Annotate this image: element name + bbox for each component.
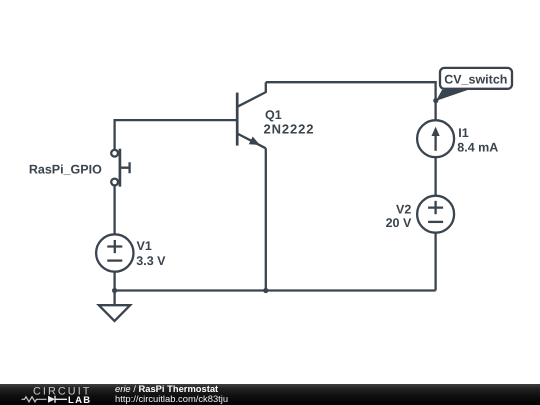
node emitter junction bbox=[263, 288, 268, 293]
transistor Q1 bbox=[237, 82, 266, 148]
flag CV_switch pointer bbox=[436, 90, 468, 101]
switch RasPi_GPIO bbox=[111, 149, 129, 187]
ground bbox=[99, 291, 130, 322]
wire emitter to bottom rail bbox=[265, 148, 267, 290]
svg-text:3.3 V: 3.3 V bbox=[136, 254, 166, 268]
svg-text:RasPi_GPIO: RasPi_GPIO bbox=[29, 162, 102, 176]
node ground junction bbox=[112, 288, 117, 293]
wire switch to V1 bbox=[113, 186, 115, 235]
svg-text:20 V: 20 V bbox=[386, 216, 412, 230]
svg-text:V2: V2 bbox=[396, 203, 411, 217]
svg-text:CV_switch: CV_switch bbox=[444, 72, 507, 86]
wire collector to I1 bbox=[266, 82, 436, 120]
wire V2 to bottom rail bbox=[434, 233, 436, 291]
footer bar bbox=[0, 384, 540, 405]
footer url line bbox=[115, 393, 228, 404]
wire I1 to V2 bbox=[434, 157, 436, 196]
voltage source V1 bbox=[96, 234, 133, 271]
svg-text:I1: I1 bbox=[458, 126, 468, 140]
svg-text:2N2222: 2N2222 bbox=[264, 121, 315, 136]
node CV_switch attach bbox=[433, 98, 438, 103]
svg-text:V1: V1 bbox=[137, 239, 152, 253]
wire base (switch to Q1 base) bbox=[115, 120, 237, 150]
bottom wire (ground rail) bbox=[115, 289, 436, 291]
logo resistor zigzag bbox=[22, 397, 47, 402]
voltage source V2 bbox=[417, 196, 454, 233]
svg-text:8.4 mA: 8.4 mA bbox=[457, 140, 498, 154]
footer title line bbox=[115, 383, 218, 394]
flag CV_switch box bbox=[440, 68, 512, 89]
svg-text:LAB: LAB bbox=[68, 395, 91, 405]
footer logo CircuitLab bbox=[22, 386, 92, 405]
current source I1 bbox=[417, 120, 454, 157]
logo diode bbox=[48, 396, 55, 403]
svg-text:Q1: Q1 bbox=[265, 108, 282, 122]
wire V1 to ground node bbox=[113, 272, 115, 291]
